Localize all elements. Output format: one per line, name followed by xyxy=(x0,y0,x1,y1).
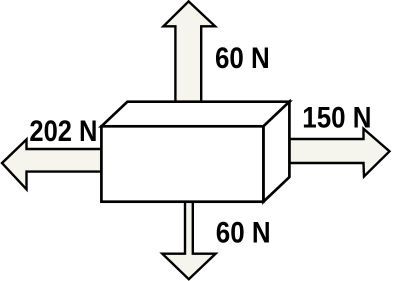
force arrow up 60N xyxy=(163,1,215,101)
box top face xyxy=(101,102,289,127)
force arrow left 202N xyxy=(2,140,101,190)
svg-text:60 N: 60 N xyxy=(216,216,271,249)
force arrow down 60N xyxy=(162,202,215,280)
svg-text:202 N: 202 N xyxy=(29,114,97,147)
box right face xyxy=(263,102,289,202)
force arrow right 150N xyxy=(289,129,389,177)
svg-text:60 N: 60 N xyxy=(215,41,270,74)
box front face xyxy=(101,126,263,201)
svg-text:150 N: 150 N xyxy=(302,101,371,134)
